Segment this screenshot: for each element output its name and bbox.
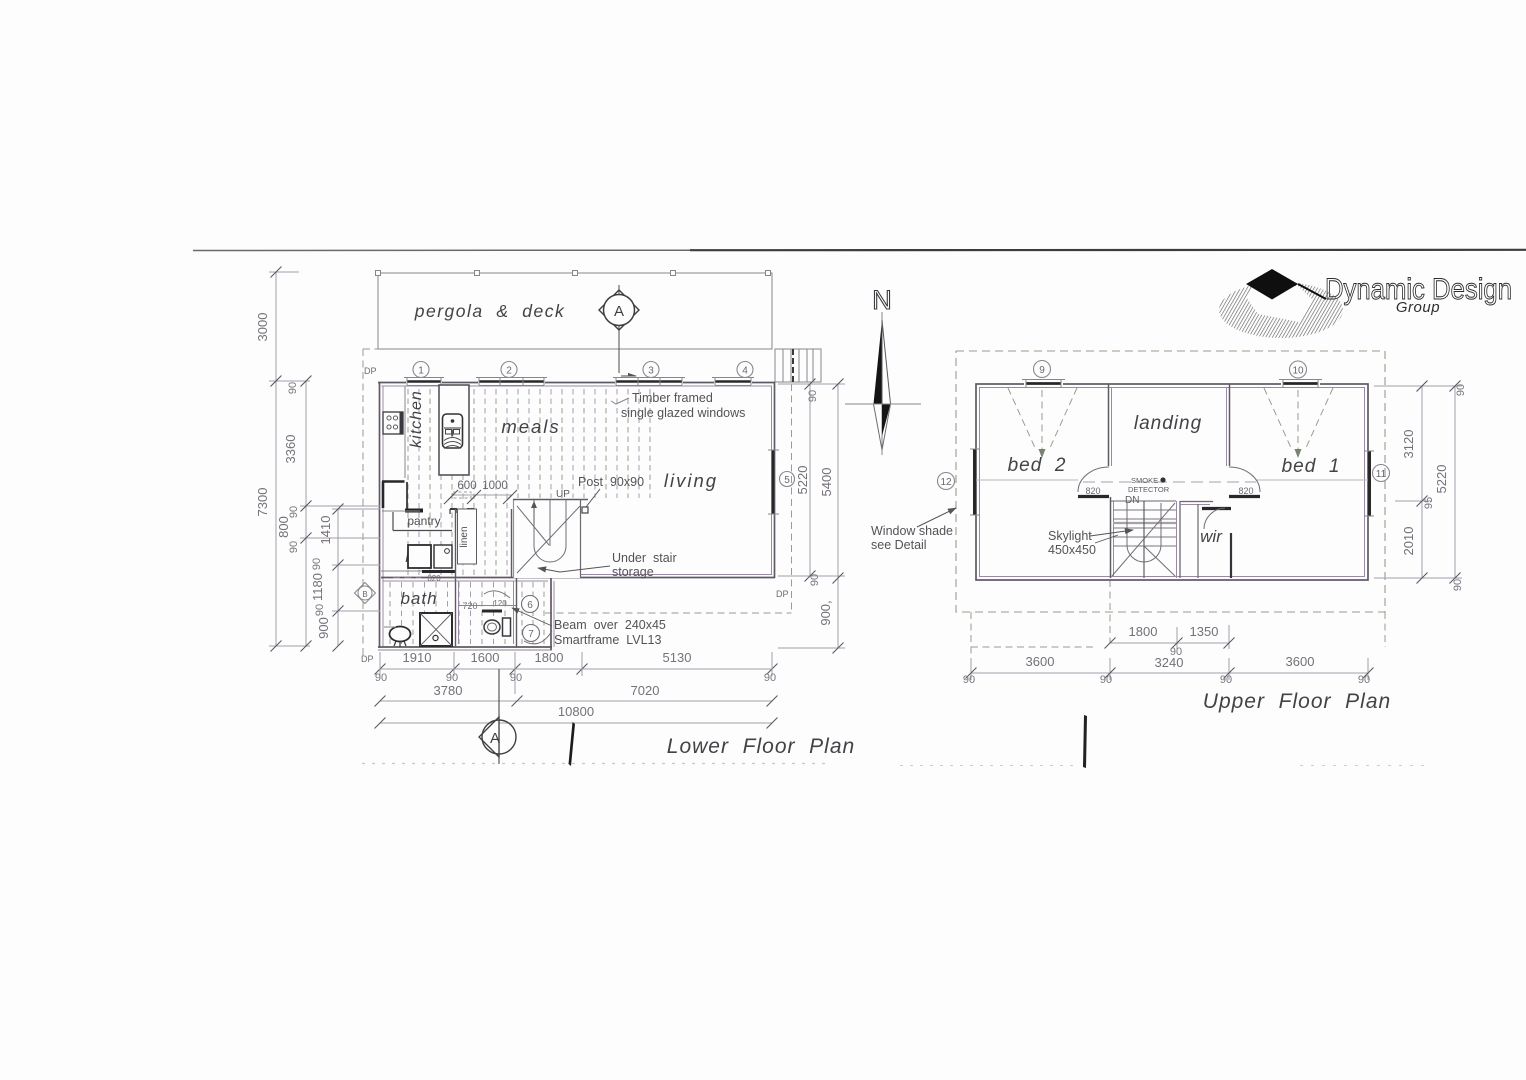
- svg-text:Under stair: Under stair: [612, 551, 677, 565]
- svg-text:820: 820: [1085, 486, 1100, 496]
- svg-text:5130: 5130: [663, 650, 692, 665]
- svg-text:Skylight: Skylight: [1048, 529, 1092, 543]
- svg-text:3600: 3600: [1286, 654, 1315, 669]
- svg-text:90: 90: [809, 574, 821, 586]
- svg-text:900: 900: [316, 617, 331, 639]
- svg-text:5220: 5220: [1434, 465, 1449, 494]
- svg-text:Upper Floor Plan: Upper Floor Plan: [1203, 690, 1391, 713]
- svg-text:90: 90: [311, 558, 323, 570]
- svg-text:1350: 1350: [1190, 624, 1219, 639]
- svg-text:90: 90: [1455, 384, 1467, 396]
- svg-text:3: 3: [648, 366, 654, 377]
- svg-text:DETECTOR: DETECTOR: [1128, 485, 1170, 494]
- svg-text:Beam over 240x45: Beam over 240x45: [554, 618, 666, 632]
- svg-text:3360: 3360: [283, 435, 298, 464]
- svg-text:90: 90: [287, 382, 299, 394]
- svg-text:90: 90: [764, 672, 776, 684]
- svg-text:90: 90: [375, 672, 387, 684]
- svg-text:Post 90x90: Post 90x90: [578, 475, 644, 489]
- svg-text:bed 2: bed 2: [1008, 455, 1067, 476]
- svg-text:5220: 5220: [795, 466, 810, 495]
- svg-text:90: 90: [807, 390, 819, 402]
- svg-text:single glazed windows: single glazed windows: [621, 406, 745, 420]
- svg-text:DP: DP: [776, 589, 789, 599]
- svg-text:90: 90: [1100, 674, 1112, 686]
- svg-text:landing: landing: [1134, 413, 1202, 434]
- svg-text:DP: DP: [364, 366, 377, 376]
- svg-text:3240: 3240: [1155, 655, 1184, 670]
- svg-text:DP: DP: [361, 654, 374, 664]
- svg-text:1600: 1600: [471, 650, 500, 665]
- svg-text:7: 7: [528, 629, 534, 640]
- svg-text:1180: 1180: [310, 573, 325, 601]
- svg-text:living: living: [664, 470, 718, 491]
- svg-text:11: 11: [1376, 469, 1387, 480]
- svg-text:1: 1: [418, 366, 424, 377]
- svg-text:12: 12: [940, 477, 952, 488]
- svg-text:bath: bath: [400, 589, 437, 608]
- svg-text:A: A: [614, 303, 624, 320]
- svg-text:5400: 5400: [819, 468, 834, 497]
- svg-text:1000: 1000: [482, 480, 508, 492]
- svg-text:120: 120: [493, 599, 507, 608]
- svg-text:90: 90: [1358, 674, 1370, 686]
- svg-text:10: 10: [1292, 366, 1304, 377]
- svg-text:900,: 900,: [818, 600, 833, 625]
- svg-text:5: 5: [784, 475, 790, 486]
- svg-text:see Detail: see Detail: [871, 538, 927, 552]
- svg-text:B: B: [362, 590, 367, 599]
- svg-text:90: 90: [288, 541, 300, 553]
- svg-text:800: 800: [276, 516, 291, 538]
- svg-text:10800: 10800: [558, 704, 594, 719]
- svg-text:9: 9: [1039, 365, 1045, 376]
- svg-text:2: 2: [506, 366, 512, 377]
- svg-text:3600: 3600: [1026, 654, 1055, 669]
- svg-text:SMOKE: SMOKE: [1131, 476, 1158, 485]
- svg-text:pergola & deck: pergola & deck: [414, 301, 565, 321]
- svg-text:3780: 3780: [434, 683, 463, 698]
- svg-text:linen: linen: [459, 526, 470, 547]
- svg-text:7300: 7300: [255, 488, 270, 517]
- svg-text:Lower Floor Plan: Lower Floor Plan: [667, 735, 855, 758]
- svg-text:600: 600: [457, 480, 476, 492]
- svg-text:1410: 1410: [318, 516, 333, 545]
- svg-text:6: 6: [527, 600, 533, 611]
- svg-text:3120: 3120: [1401, 430, 1416, 459]
- svg-text:95: 95: [1423, 497, 1435, 509]
- svg-text:bed 1: bed 1: [1282, 456, 1341, 477]
- svg-text:kitchen: kitchen: [408, 390, 425, 448]
- svg-text:90: 90: [963, 674, 975, 686]
- svg-text:UP: UP: [556, 489, 570, 500]
- svg-text:Smartframe LVL13: Smartframe LVL13: [554, 633, 662, 647]
- svg-text:pantry: pantry: [407, 514, 440, 528]
- svg-text:4: 4: [742, 366, 748, 377]
- svg-text:90: 90: [1220, 674, 1232, 686]
- svg-text:820: 820: [1238, 486, 1253, 496]
- svg-text:A: A: [490, 730, 500, 747]
- svg-text:450x450: 450x450: [1048, 543, 1096, 557]
- svg-text:90: 90: [1452, 579, 1464, 591]
- svg-text:storage: storage: [612, 565, 654, 579]
- svg-text:3000: 3000: [255, 313, 270, 342]
- svg-text:wir: wir: [1200, 527, 1223, 546]
- svg-text:Group: Group: [1396, 299, 1440, 316]
- svg-text:Window shade: Window shade: [871, 524, 953, 538]
- svg-text:7020: 7020: [631, 683, 660, 698]
- svg-text:90: 90: [314, 604, 326, 616]
- svg-text:820: 820: [427, 574, 441, 583]
- svg-text:90: 90: [510, 672, 522, 684]
- svg-text:N: N: [872, 285, 892, 315]
- svg-text:1800: 1800: [1129, 624, 1158, 639]
- svg-text:1910: 1910: [403, 650, 432, 665]
- svg-text:Timber framed: Timber framed: [632, 391, 713, 405]
- svg-text:meals: meals: [501, 416, 560, 437]
- svg-text:2010: 2010: [1401, 527, 1416, 556]
- svg-text:1800: 1800: [535, 650, 564, 665]
